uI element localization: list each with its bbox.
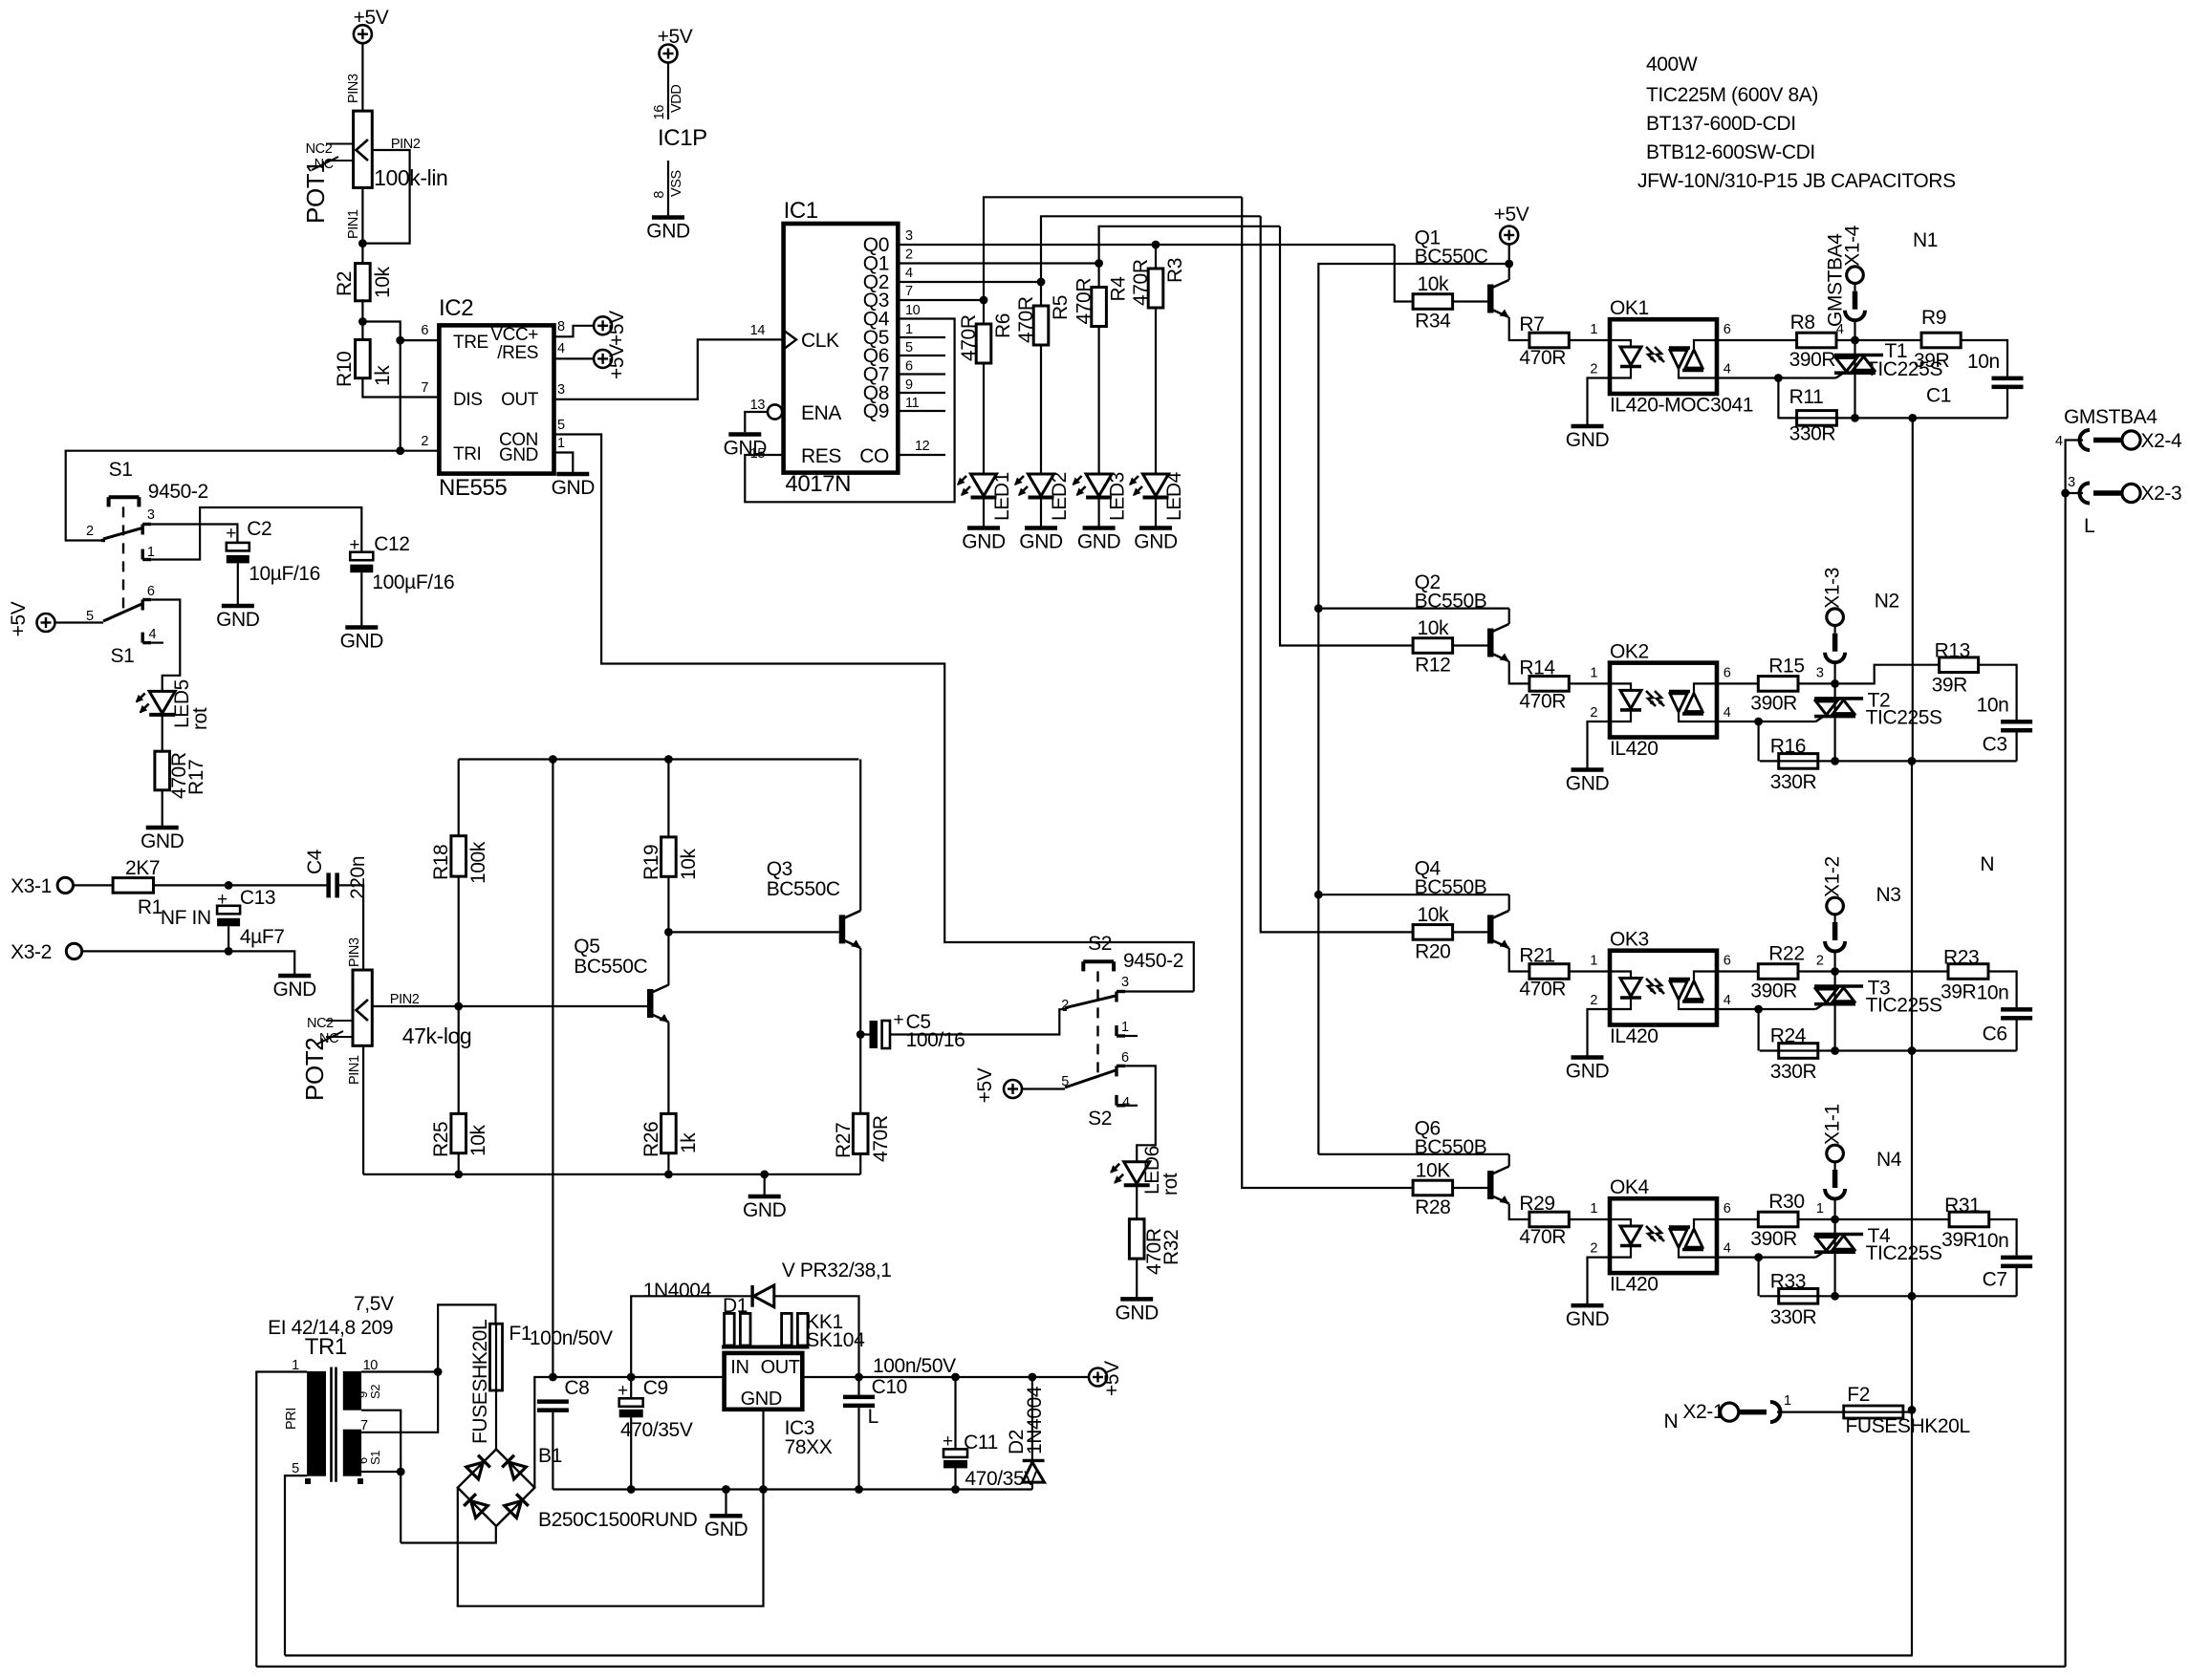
svg-text:10n: 10n xyxy=(1977,982,2009,1004)
svg-text:L: L xyxy=(2084,515,2094,537)
svg-text:OK3: OK3 xyxy=(1610,929,1649,951)
svg-text:R24: R24 xyxy=(1770,1025,1807,1047)
transistor Q1 xyxy=(1487,285,1494,313)
power +5V (IC2 pin8) xyxy=(594,316,612,334)
S2 contact 6 xyxy=(1115,1066,1117,1076)
S2 contact 4 xyxy=(1115,1095,1117,1106)
wire R5 column to staircase xyxy=(1041,216,1261,282)
svg-text:7: 7 xyxy=(360,1418,368,1433)
ground (C12) xyxy=(345,625,378,630)
svg-text:470R: 470R xyxy=(1130,259,1152,306)
POT2 NC stub xyxy=(326,1036,353,1038)
resistor R8 390R xyxy=(1797,333,1836,348)
wire R11 to triac bottom xyxy=(1778,417,1855,419)
svg-text:11: 11 xyxy=(905,396,920,411)
svg-text:R1: R1 xyxy=(138,896,163,918)
wire bottom to C corner ch2 xyxy=(1835,760,2017,762)
svg-text:R9: R9 xyxy=(1921,307,1946,329)
wire R18 to pin2 node xyxy=(458,876,460,1006)
junction bus ch2 xyxy=(1314,604,1323,613)
wire R20 to base xyxy=(1453,931,1487,933)
svg-text:+5V: +5V xyxy=(606,311,628,346)
resistor R21 470R xyxy=(1529,964,1569,980)
svg-text:PIN2: PIN2 xyxy=(390,992,420,1007)
resistor R26 1k xyxy=(661,1113,677,1152)
svg-text:390R: 390R xyxy=(1750,980,1797,1002)
svg-text:S2: S2 xyxy=(1088,1108,1112,1130)
wire Q5 collector xyxy=(667,932,669,985)
ground (LED3) xyxy=(1083,526,1116,530)
svg-text:330R: 330R xyxy=(1789,422,1836,444)
wire LED2 to GND xyxy=(1040,499,1042,528)
bottom N wire xyxy=(285,1654,1913,1656)
svg-text:S2: S2 xyxy=(368,1385,382,1399)
resistor R6 470R xyxy=(976,324,991,363)
svg-text:+5V: +5V xyxy=(974,1067,996,1103)
IC1P VSS pin xyxy=(667,161,669,216)
svg-text:POT2: POT2 xyxy=(300,1038,329,1101)
svg-text:10k: 10k xyxy=(1417,617,1449,639)
wire OK4 pin2 to GND xyxy=(1588,1258,1611,1304)
svg-text:390R: 390R xyxy=(1789,349,1836,371)
wire IC2 pin4 to +5V xyxy=(554,357,594,359)
svg-text:7: 7 xyxy=(421,380,428,396)
svg-text:GND: GND xyxy=(646,221,690,243)
resistor R18 100k xyxy=(451,836,466,876)
svg-text:IL420-MOC3041: IL420-MOC3041 xyxy=(1610,395,1753,417)
wire LED1 to GND xyxy=(983,499,985,528)
wire LED6 to R32 xyxy=(1136,1186,1138,1219)
wire S2-6 to LED6 xyxy=(1125,1066,1156,1161)
svg-text:BTB12-600SW-CDI: BTB12-600SW-CDI xyxy=(1646,141,1815,163)
wire collector line ch3 xyxy=(1318,894,1508,895)
svg-text:10k: 10k xyxy=(1417,904,1449,926)
wire Q2 collector xyxy=(1508,609,1510,624)
S2 upper arm xyxy=(1065,996,1116,1008)
svg-text:LED4: LED4 xyxy=(1163,471,1185,521)
svg-text:5: 5 xyxy=(86,609,94,624)
svg-text:S1: S1 xyxy=(368,1451,382,1465)
resistor R33 330R xyxy=(1779,1289,1818,1304)
wire to R23 xyxy=(1835,970,1948,972)
wire IC2 pin6 xyxy=(401,339,440,341)
triac T1 TIC225S xyxy=(1854,340,1855,418)
wire Q0 pin3 xyxy=(898,244,1395,246)
svg-text:B250C1500RUND: B250C1500RUND xyxy=(538,1509,698,1531)
wire X2-4 to L bus xyxy=(2066,441,2083,494)
svg-text:4017N: 4017N xyxy=(785,471,851,497)
svg-text:LED3: LED3 xyxy=(1107,472,1129,521)
IC1 pin 9 stub (Q8) xyxy=(898,392,945,394)
wire R7 to OK1 xyxy=(1569,339,1610,341)
junction Q-line/R3 xyxy=(1152,241,1160,249)
svg-text:10k: 10k xyxy=(372,266,394,298)
junction pin9/pin6 xyxy=(397,1468,405,1476)
svg-text:2: 2 xyxy=(1590,1241,1597,1257)
svg-text:CO: CO xyxy=(859,445,889,467)
svg-text:R25: R25 xyxy=(430,1122,452,1157)
resistor R11 330R xyxy=(1797,411,1837,426)
wire D1 branch xyxy=(631,1296,752,1377)
led LED1 xyxy=(971,474,997,496)
svg-text:N4: N4 xyxy=(1876,1149,1902,1171)
resistor R5 470R xyxy=(1033,306,1049,345)
TR1 core xyxy=(330,1368,333,1482)
svg-text:2: 2 xyxy=(1590,705,1597,721)
svg-text:R22: R22 xyxy=(1768,943,1804,965)
junction gate/R24 xyxy=(1754,1005,1763,1014)
svg-text:100n/50V: 100n/50V xyxy=(530,1327,613,1349)
wire N bus to bottom xyxy=(1911,1410,1913,1655)
svg-text:NF IN: NF IN xyxy=(161,907,211,929)
junction rail/R19 xyxy=(664,755,673,764)
ground (audio) xyxy=(748,1195,781,1199)
wire TR1 pin10 xyxy=(361,1370,438,1372)
junction triac top ch4 xyxy=(1831,1216,1839,1224)
svg-text:4: 4 xyxy=(1122,1095,1130,1110)
svg-text:PRI: PRI xyxy=(284,1408,299,1430)
wire Q2 emitter to R14 xyxy=(1509,661,1529,683)
svg-text:GND: GND xyxy=(216,609,260,631)
wire OK3 pin2 to GND xyxy=(1588,1009,1611,1056)
svg-text:10: 10 xyxy=(905,303,921,318)
svg-text:R23: R23 xyxy=(1943,947,1979,969)
svg-text:470R: 470R xyxy=(1519,347,1566,369)
svg-text:LED1: LED1 xyxy=(991,472,1013,521)
junction X2-3/L xyxy=(2061,489,2070,498)
wire Q6 collector xyxy=(1508,1154,1510,1167)
led LED4 xyxy=(1143,474,1169,496)
svg-text:S1: S1 xyxy=(111,645,135,667)
wire OK4 pin4 gate xyxy=(1717,1256,1816,1258)
svg-text:GMSTBA4: GMSTBA4 xyxy=(1825,233,1847,327)
svg-text:C12: C12 xyxy=(374,533,409,555)
junction C13/X3-2 xyxy=(225,947,233,956)
svg-text:X2-3: X2-3 xyxy=(2141,483,2182,505)
wire Q4 collector xyxy=(1508,894,1510,911)
svg-text:4: 4 xyxy=(149,627,157,642)
svg-text:X2-1: X2-1 xyxy=(1682,1401,1724,1423)
svg-text:TIC225S: TIC225S xyxy=(1866,995,1942,1017)
svg-text:TIC225M (600V 8A): TIC225M (600V 8A) xyxy=(1646,84,1818,106)
fuse F2 FUSESHK20L xyxy=(1844,1406,1903,1418)
svg-text:3: 3 xyxy=(2068,475,2075,490)
svg-text:R33: R33 xyxy=(1770,1270,1806,1292)
svg-text:C9: C9 xyxy=(643,1377,668,1399)
S1 contact 6 xyxy=(141,600,143,611)
ground (LED1) xyxy=(967,526,1000,530)
wire C4 to POT2 pin3 xyxy=(339,885,363,970)
junction R19/Q5 collector/Q3 base xyxy=(664,928,673,937)
resistor R13 39R xyxy=(1940,657,1979,673)
svg-text:LED2: LED2 xyxy=(1049,472,1071,521)
wire R33 to triac bottom xyxy=(1760,1295,1835,1297)
svg-text:R31: R31 xyxy=(1944,1195,1980,1217)
svg-text:R7: R7 xyxy=(1519,313,1544,335)
wire Q5 emitter xyxy=(667,1023,669,1114)
wire R4 to LED xyxy=(1097,327,1099,475)
svg-text:2: 2 xyxy=(905,248,913,263)
wire R3 to LED xyxy=(1155,308,1157,474)
junction triac top ch2 xyxy=(1831,679,1839,688)
POT1 NC2 stub xyxy=(326,143,354,145)
S1 lower arm xyxy=(103,603,144,621)
svg-text:/RES: /RES xyxy=(497,343,538,363)
junction OUT/D2 xyxy=(1029,1373,1037,1382)
svg-text:C2: C2 xyxy=(247,518,271,540)
resistor R3 470R xyxy=(1148,269,1163,308)
svg-text:rot: rot xyxy=(189,707,211,730)
svg-text:X1-3: X1-3 xyxy=(1822,568,1844,609)
svg-text:BT137-600D-CDI: BT137-600D-CDI xyxy=(1646,113,1796,135)
wire bottom to C corner ch4 xyxy=(1835,1295,2017,1297)
svg-text:PIN1: PIN1 xyxy=(346,209,361,239)
wire supply rail top xyxy=(459,758,859,760)
wire C6 to bottom xyxy=(2016,1021,2018,1051)
svg-text:4: 4 xyxy=(557,341,565,356)
S1 mech dashed link xyxy=(122,506,124,613)
svg-text:330R: 330R xyxy=(1770,1306,1817,1328)
gate lead xyxy=(1816,1252,1824,1257)
wire IC3 GND pin xyxy=(762,1410,764,1490)
svg-text:X3-2: X3-2 xyxy=(11,941,52,963)
svg-text:78XX: 78XX xyxy=(785,1436,833,1458)
svg-text:1: 1 xyxy=(1590,665,1597,680)
resistor R32 470R xyxy=(1129,1219,1144,1259)
svg-text:3: 3 xyxy=(1121,975,1129,990)
svg-text:GND: GND xyxy=(743,1199,787,1221)
ground (ENA) xyxy=(728,432,761,437)
wire X3-1 to R1 xyxy=(74,884,114,886)
wire OK1 pin4 gate xyxy=(1717,377,1836,378)
svg-text:+: + xyxy=(894,1010,904,1030)
svg-text:9450-2: 9450-2 xyxy=(148,481,208,503)
wire R8 to triac node xyxy=(1836,339,1855,341)
junction OUT/C11 xyxy=(951,1373,960,1382)
IC2 NE555 box xyxy=(439,325,553,473)
junction rail/R26 xyxy=(664,1171,673,1179)
junction gate/R16 xyxy=(1754,718,1763,726)
wire S1-1 to C12 xyxy=(151,507,361,560)
S2 contact 1 xyxy=(1115,1025,1117,1036)
POT1 pin1 wire xyxy=(361,187,363,263)
svg-text:39R: 39R xyxy=(1941,981,1977,1003)
svg-text:5: 5 xyxy=(905,340,913,355)
resistor R22 390R xyxy=(1758,964,1798,980)
wire F2 to N bus xyxy=(1903,1411,1912,1412)
svg-text:1: 1 xyxy=(1590,1201,1597,1217)
POT1 pin2 wire xyxy=(364,150,410,244)
svg-text:1: 1 xyxy=(1784,1393,1791,1409)
wire collector line ch4 xyxy=(1318,1153,1508,1155)
wire bottom to C corner ch3 xyxy=(1835,1049,2017,1051)
wire to R31 xyxy=(1835,1218,1950,1220)
resistor R24 330R xyxy=(1779,1044,1818,1059)
svg-text:+5V: +5V xyxy=(1494,204,1529,226)
audio GND rail xyxy=(363,1174,860,1175)
svg-text:X1-1: X1-1 xyxy=(1822,1104,1844,1145)
svg-text:V PR32/38,1: V PR32/38,1 xyxy=(782,1260,892,1282)
svg-text:X3-1: X3-1 xyxy=(11,875,52,897)
svg-text:BC550C: BC550C xyxy=(767,878,840,900)
svg-text:100k-lin: 100k-lin xyxy=(374,165,447,190)
IC1 pin 6 stub (Q7) xyxy=(898,373,945,375)
junction C8 top xyxy=(549,1373,557,1382)
svg-text:BC550C: BC550C xyxy=(574,956,647,978)
junction gnd/C9 xyxy=(627,1485,636,1494)
wire C1 to bottom xyxy=(2006,389,2008,418)
svg-text:GND: GND xyxy=(499,445,538,465)
wire +5V to S1 pin5 xyxy=(55,621,104,623)
ground (R32) xyxy=(1120,1297,1153,1302)
wire R17 to GND xyxy=(162,790,163,827)
svg-text:39R: 39R xyxy=(1914,350,1950,372)
POT1 NC stub xyxy=(326,160,354,162)
wire R3 top lead xyxy=(1155,245,1157,269)
transformer TR1 secondary winding 1 xyxy=(343,1371,361,1411)
svg-text:400W: 400W xyxy=(1646,54,1698,75)
junction N/F2 xyxy=(1908,1406,1917,1414)
bottom L wire xyxy=(256,1666,2065,1668)
svg-text:Q9: Q9 xyxy=(863,400,889,422)
resistor R30 390R xyxy=(1758,1212,1798,1227)
svg-text:12: 12 xyxy=(915,439,930,454)
wire R2 to node xyxy=(361,301,363,340)
svg-text:R3: R3 xyxy=(1164,258,1186,283)
wire IC2 pin1 to GND xyxy=(554,453,574,473)
svg-text:F2: F2 xyxy=(1847,1384,1870,1406)
svg-text:GND: GND xyxy=(705,1518,748,1540)
svg-text:6: 6 xyxy=(147,584,155,599)
wire R14 to OK2 xyxy=(1569,682,1610,684)
svg-text:TRE: TRE xyxy=(453,333,488,353)
wire C3 to bottom xyxy=(2016,732,2018,761)
svg-text:IL420: IL420 xyxy=(1610,738,1659,760)
svg-text:4: 4 xyxy=(1724,1241,1731,1257)
junction TRE pin6 xyxy=(396,336,404,345)
svg-text:6: 6 xyxy=(1724,1201,1731,1217)
wire GND stub xyxy=(764,1174,766,1195)
power +5V (S1 lower) xyxy=(37,614,55,632)
IC1P VDD pin xyxy=(667,63,669,120)
wire LED3 to GND xyxy=(1097,499,1099,528)
ground (C2) xyxy=(222,604,254,609)
supply GND rail xyxy=(553,1488,1032,1490)
resistor R7 470R xyxy=(1529,333,1569,348)
wire TR1 pin9 xyxy=(361,1411,401,1543)
svg-text:GND: GND xyxy=(1077,531,1121,553)
svg-text:4: 4 xyxy=(905,266,913,281)
svg-text:1: 1 xyxy=(905,322,913,337)
svg-text:1: 1 xyxy=(557,436,565,451)
wire +5V bus xyxy=(1318,264,1508,1154)
svg-text:+5V: +5V xyxy=(1101,1361,1123,1396)
svg-text:Q3: Q3 xyxy=(767,858,792,880)
wire TRI to S1 xyxy=(66,451,440,541)
wire R25 to rail xyxy=(458,1153,460,1174)
wire bridge DC+ to C8 rail xyxy=(534,1377,724,1488)
svg-text:RES: RES xyxy=(801,445,841,467)
svg-text:GND: GND xyxy=(1566,773,1610,795)
junction gnd/IC3 xyxy=(759,1485,768,1494)
svg-text:C13: C13 xyxy=(240,887,275,909)
svg-text:PIN1: PIN1 xyxy=(347,1055,362,1085)
svg-text:GND: GND xyxy=(552,477,596,499)
IC1 pin 1 stub (Q5) xyxy=(898,336,945,338)
svg-text:100/16: 100/16 xyxy=(906,1029,965,1051)
wire OK1 pin2 to GND xyxy=(1588,378,1611,425)
svg-text:+: + xyxy=(226,524,236,544)
junction R25/rail xyxy=(454,1171,463,1179)
svg-text:2: 2 xyxy=(1816,954,1824,969)
wire OK1 pin6 to R8 xyxy=(1717,339,1797,341)
svg-text:39R: 39R xyxy=(1941,1229,1978,1251)
svg-text:GND: GND xyxy=(1019,531,1063,553)
S1 contact 3 xyxy=(141,525,143,535)
svg-text:9: 9 xyxy=(905,377,913,393)
svg-text:GND: GND xyxy=(1115,1302,1159,1324)
svg-text:10µF/16: 10µF/16 xyxy=(249,563,320,585)
wire OUT to CLK xyxy=(554,339,784,399)
wire R33 branch xyxy=(1757,1258,1759,1297)
wire R23 to C6 xyxy=(1988,972,2017,1008)
wire Q4 pin10 to RES wrap xyxy=(745,319,954,503)
svg-text:IL420: IL420 xyxy=(1610,1025,1659,1047)
wire R6 to LED xyxy=(983,363,985,474)
connector X1-4 xyxy=(1847,267,1864,284)
wire staircase drop ch3 xyxy=(1261,216,1413,932)
svg-text:470R: 470R xyxy=(1015,296,1037,343)
svg-text:GND: GND xyxy=(272,979,316,1001)
wire OK2 pin6 to R15 xyxy=(1717,682,1758,684)
wire R12 to base xyxy=(1453,644,1487,646)
svg-text:1: 1 xyxy=(1816,1201,1824,1217)
svg-text:10n: 10n xyxy=(1977,694,2009,716)
svg-text:R15: R15 xyxy=(1768,655,1804,677)
svg-text:IC2: IC2 xyxy=(439,295,473,321)
svg-text:GND: GND xyxy=(1566,1061,1610,1083)
svg-text:10k: 10k xyxy=(467,1124,489,1156)
svg-text:PIN3: PIN3 xyxy=(347,937,362,967)
svg-text:R16: R16 xyxy=(1770,735,1806,757)
svg-text:R2: R2 xyxy=(334,271,356,296)
resistor R10 1k xyxy=(356,340,371,378)
power +5V symbol (POT1 top) xyxy=(354,25,372,43)
svg-text:C4: C4 xyxy=(304,849,326,874)
svg-text:16: 16 xyxy=(652,105,667,120)
capacitor C6 10n xyxy=(2001,1007,2032,1012)
svg-text:39R: 39R xyxy=(1932,675,1968,697)
ground (OK2) xyxy=(1572,767,1604,772)
ground (supply) xyxy=(710,1514,743,1518)
junction gate/R11 xyxy=(1774,374,1783,382)
svg-text:6: 6 xyxy=(1121,1050,1129,1066)
junction C9 top xyxy=(627,1373,636,1382)
junction bus ch3 xyxy=(1314,891,1323,899)
svg-text:390R: 390R xyxy=(1750,1228,1797,1250)
wire 9/6 to bridge AC2 xyxy=(401,1526,496,1542)
wire staircase drop ch4 xyxy=(1242,197,1413,1188)
svg-text:100µF/16: 100µF/16 xyxy=(372,571,454,593)
svg-text:7,5V: 7,5V xyxy=(354,1293,394,1315)
transistor Q6 xyxy=(1487,1171,1494,1199)
wire collector line ch2 xyxy=(1318,607,1508,609)
junction gate/R33 xyxy=(1754,1253,1763,1261)
svg-text:330R: 330R xyxy=(1770,1061,1817,1083)
svg-text:R17: R17 xyxy=(185,760,207,795)
S2 mech dashed link xyxy=(1096,971,1098,1077)
svg-text:rot: rot xyxy=(1160,1173,1182,1195)
